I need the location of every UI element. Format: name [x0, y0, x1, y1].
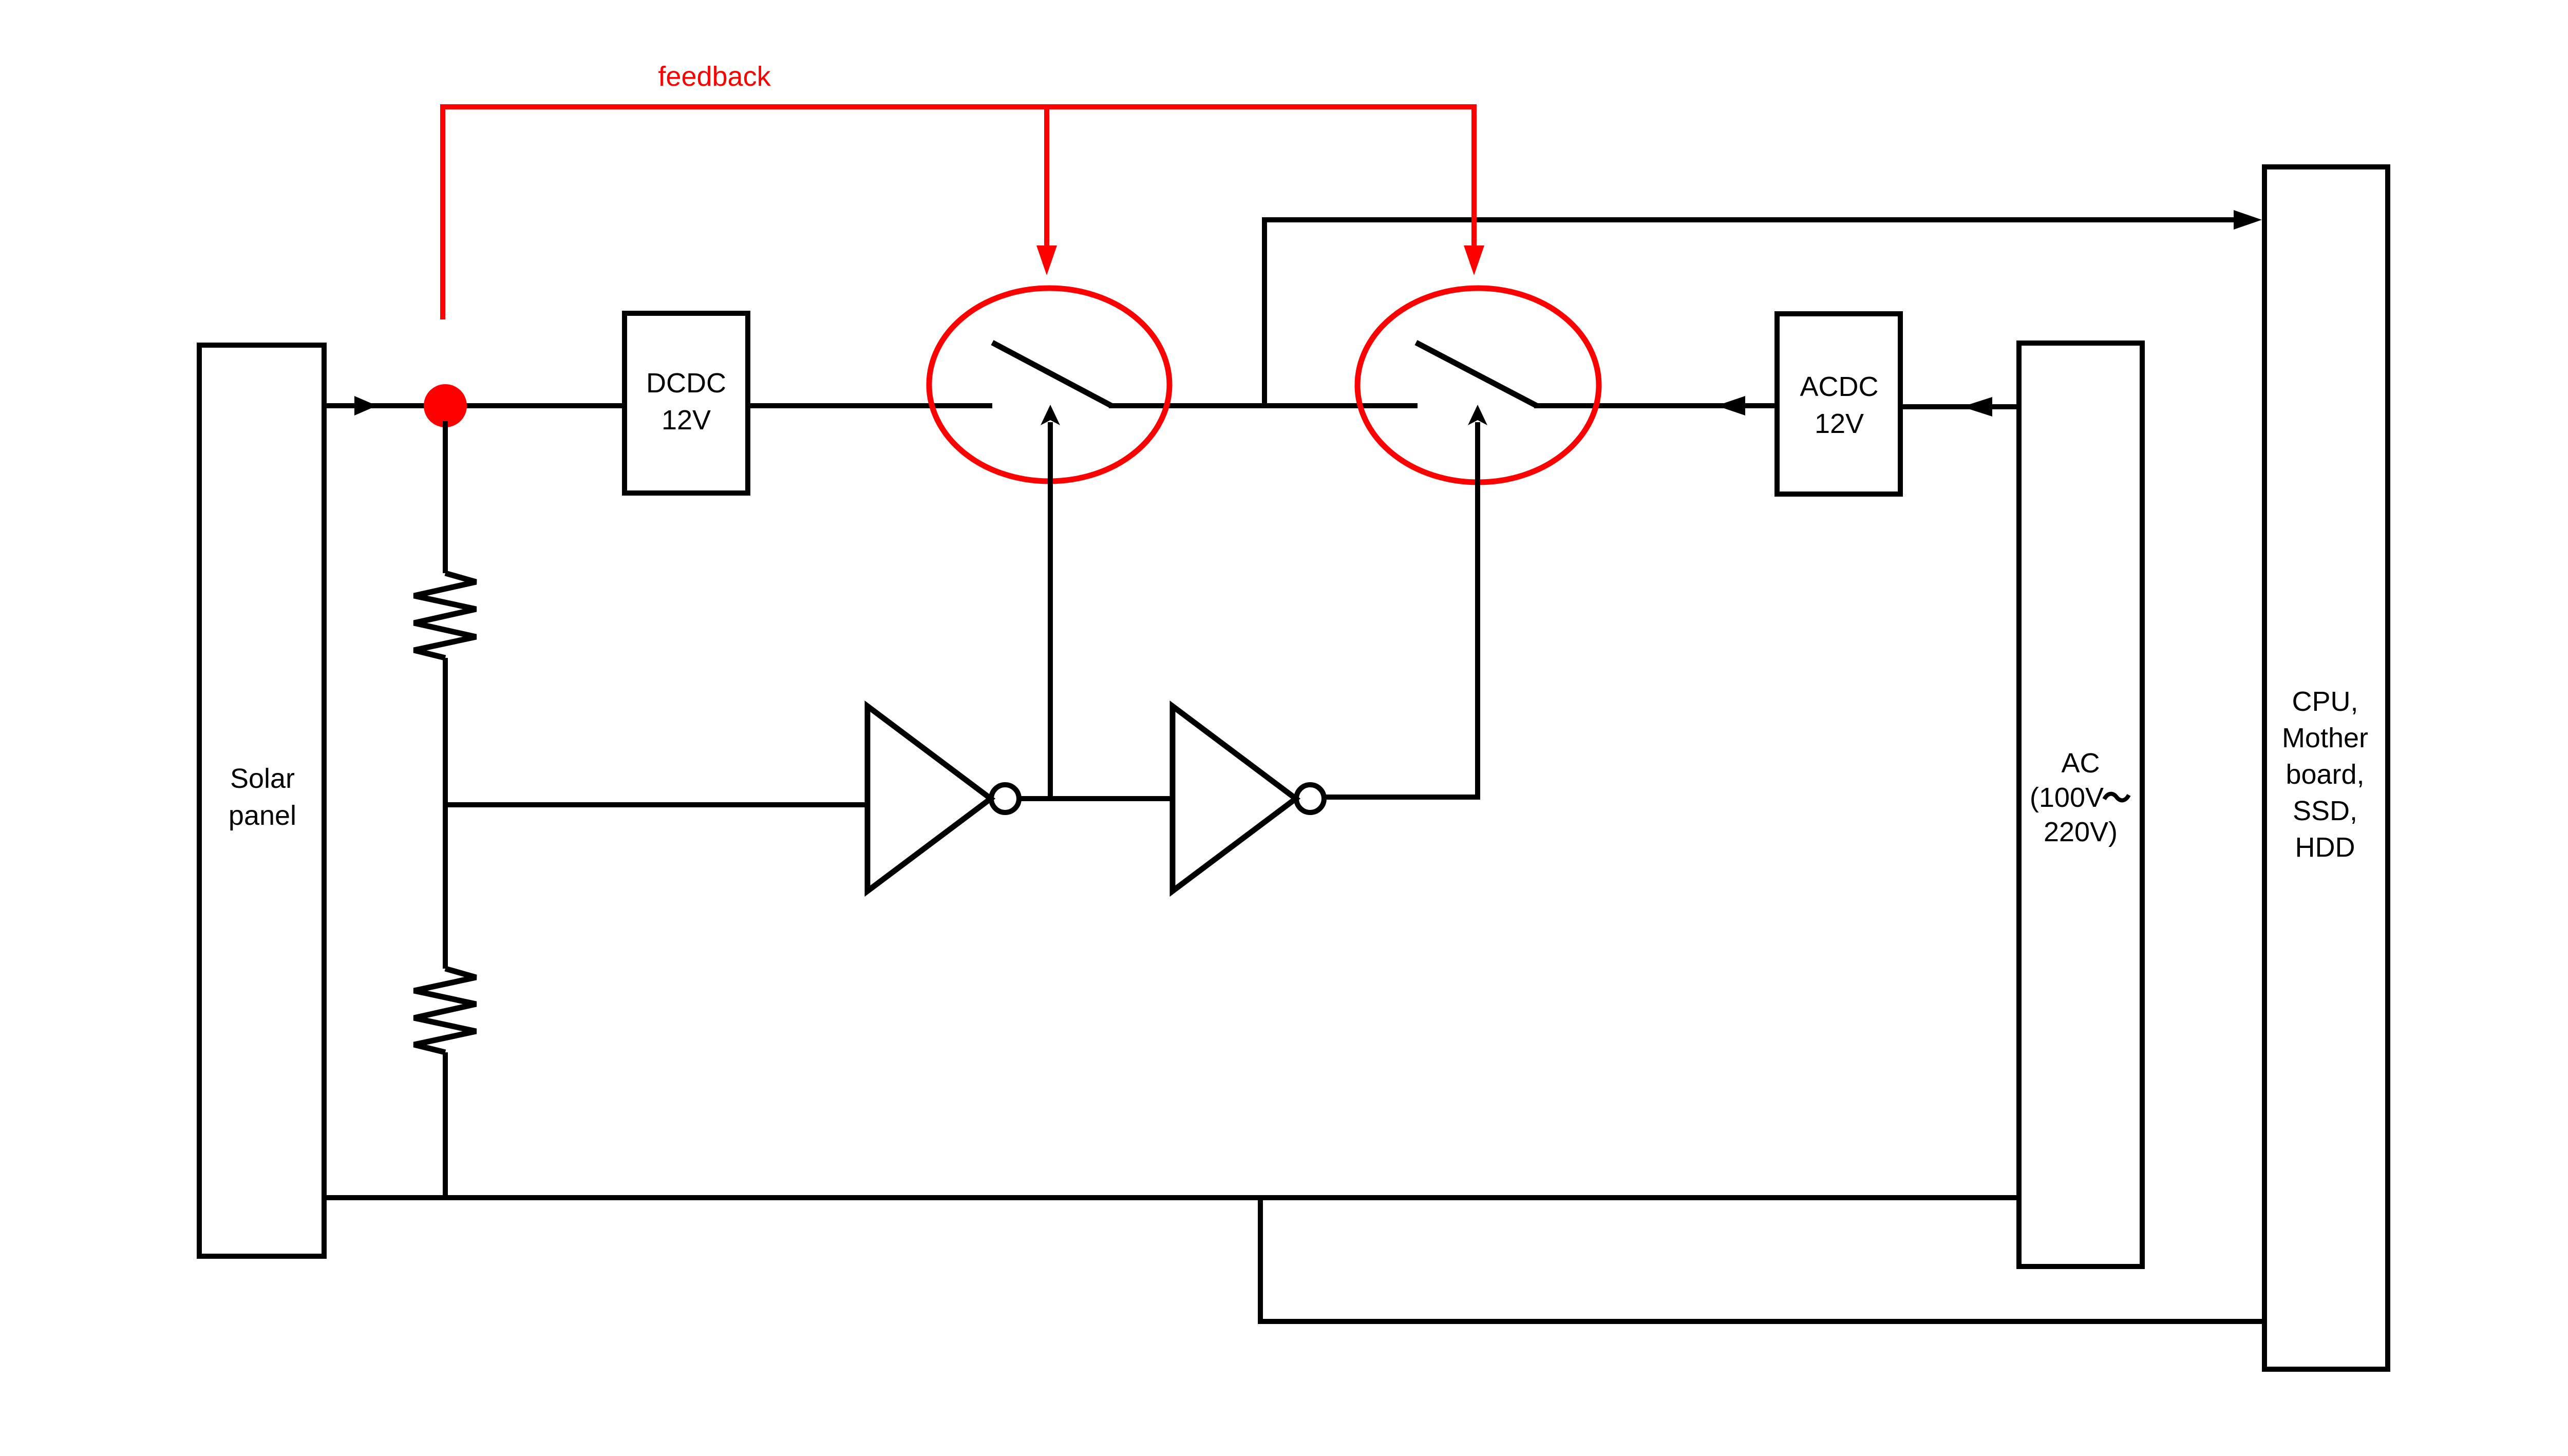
wire inverter2 to switch2 control — [1324, 795, 1480, 800]
control up-arrow into S1 — [1041, 405, 1060, 799]
control up-arrow into S2 — [1468, 405, 1487, 797]
svg-text:(100V: (100V — [2030, 782, 2104, 813]
svg-text:board,: board, — [2286, 759, 2364, 790]
inverter U3 triangle — [867, 706, 991, 891]
svg-text:12V: 12V — [662, 405, 711, 436]
switch S1 blade — [992, 343, 1111, 406]
red circle around switch S2 — [1357, 288, 1599, 482]
inverter U4 output bubble — [1296, 785, 1324, 812]
arrowhead into CPU box — [2234, 210, 2262, 230]
wire solar panel to node — [324, 403, 445, 408]
wire junction up to CPU feed — [1262, 220, 1267, 406]
svg-text:CPU,: CPU, — [2292, 686, 2358, 717]
red arrowhead into switch S1 — [1036, 245, 1057, 275]
switch S2 blade — [1416, 343, 1537, 406]
node A (red junction dot) — [424, 384, 467, 427]
tilde glyph — [2104, 794, 2129, 801]
resistor R2 — [414, 969, 476, 1052]
wire switch1 to switch2 — [1109, 403, 1418, 408]
svg-text:AC: AC — [2061, 748, 2100, 779]
divider tap wire to inverter1 — [445, 802, 867, 807]
wire to CPU box — [1262, 217, 2234, 222]
svg-text:HDD: HDD — [2295, 832, 2355, 863]
wire node to DCDC — [445, 403, 627, 408]
svg-text:SSD,: SSD, — [2293, 796, 2357, 826]
svg-text:Mother: Mother — [2282, 723, 2368, 753]
inverter U4 triangle — [1173, 706, 1296, 891]
resistor R2 lower lead — [443, 1052, 448, 1198]
arrowhead solar to node — [354, 396, 377, 415]
resistor R2 upper lead — [443, 805, 448, 969]
red circle around switch S1 — [929, 288, 1169, 481]
DCDC converter U1 — [625, 313, 748, 493]
resistor R1 lower lead — [443, 658, 448, 805]
wire AC to ACDC — [1898, 404, 2021, 409]
svg-text:ACDC: ACDC — [1800, 371, 1878, 402]
red feedback sense line from node — [443, 107, 1474, 319]
red branch arrow into switch S1 — [1044, 107, 1049, 245]
arrowhead toward switch2 — [1716, 396, 1745, 415]
svg-text:feedback: feedback — [658, 61, 771, 92]
AC source box — [2019, 343, 2142, 1266]
resistor R1 upper lead — [443, 421, 448, 573]
return wire to CPU box — [1258, 1319, 2264, 1324]
CPU / motherboard box — [2264, 167, 2388, 1369]
wire switch2 to ACDC — [1534, 403, 1779, 408]
ACDC converter U2 — [1777, 314, 1900, 494]
solar panel box — [199, 345, 324, 1256]
wire DCDC to switch1 left contact — [746, 403, 992, 408]
arrowhead toward ACDC — [1962, 397, 1992, 417]
branch down to CPU return — [1258, 1198, 1263, 1321]
wire inverter1 to inverter2 — [1019, 796, 1173, 801]
inverter U3 output bubble — [991, 785, 1019, 812]
resistor R1 — [414, 573, 476, 658]
svg-text:panel: panel — [229, 800, 296, 831]
bottom return wire solar to AC — [324, 1195, 2019, 1200]
svg-text:12V: 12V — [1815, 408, 1864, 439]
red arrowhead into switch S2 — [1464, 245, 1484, 275]
svg-text:220V): 220V) — [2044, 817, 2118, 847]
svg-text:DCDC: DCDC — [646, 368, 726, 399]
svg-text:Solar: Solar — [230, 763, 295, 794]
